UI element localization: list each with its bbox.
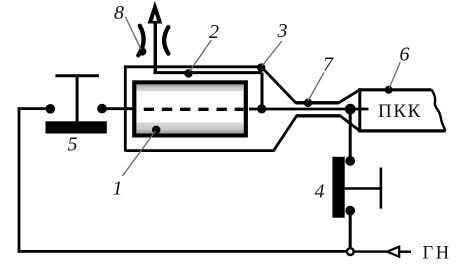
node: dot at valve (label 8 target) [138,48,146,56]
GN arrowhead (open triangle pointing left) [387,247,399,257]
component 4: thick bar [332,157,344,218]
leader line for label 3 [262,41,282,66]
channel 7: top wall reinforcement [296,101,339,104]
leader line for label 7 [308,73,324,102]
valve 8: left arc [138,26,143,56]
channel 7: bottom wall reinforcement [297,114,341,117]
node: big junction dot at funnel tip [345,104,356,115]
component 4: T electrode vertical bar [380,168,383,209]
leader line for label 8 [125,17,141,50]
component 5: left terminal dot [46,104,56,114]
node: dot on box 6 top edge (label 6 target) [385,86,393,94]
wire 2: horizontal inside envelope [154,71,262,74]
svg-text:6: 6 [400,44,410,66]
component 5: top T horizontal [55,74,99,77]
svg-text:1: 1 [113,178,123,200]
leader line for label 6 [389,62,400,89]
wire: axis through channel to PKK [262,108,369,111]
box 6 (PKK): bottom edge [358,129,446,132]
component 4: top terminal dot [345,156,355,166]
svg-text:7: 7 [323,54,334,76]
leader line for label 2 [190,40,212,72]
gas outlet arrow 8: white notch inside head [153,14,158,21]
svg-text:ПКК: ПКК [378,101,422,122]
tube 1: upper gray strip [137,85,244,91]
component 5: right terminal dot [97,104,107,114]
svg-text:ГН: ГН [423,244,452,264]
svg-text:5: 5 [68,134,78,156]
valve 8: right arc [164,27,168,53]
wire 2: vertical down to junction [261,73,264,109]
wire: from big dot down to component 4 [349,109,352,158]
wire: bus from circle to GN arrow [354,250,388,252]
node: dot on wire 2 [184,69,192,77]
wire: stub right of GN arrowhead [399,250,411,252]
wire: bottom bus [18,250,347,253]
wire: comp5 right dot to tube [102,107,135,110]
node: dot inside tube (label 1 target) [152,126,160,134]
node: junction dot at tube right axis [257,104,266,113]
component 5: wire from rail to left dot [18,107,50,110]
tube 1: dashed axis line [144,108,244,111]
component 5: bottom thick bar [46,121,107,133]
svg-text:8: 8 [114,2,124,24]
gas outlet arrow 8: arrowhead (solid with small notch) [149,4,162,23]
node: dot on channel top wall (label 7 target) [304,99,312,107]
component 4: T electrode horizontal [345,187,381,190]
component 4: bottom terminal dot [345,206,355,216]
wire: comp4 bottom dot to bus circle [349,211,352,248]
component 5: vertical stem [76,76,79,122]
wire: left rail vertical [18,107,21,253]
node: open circle junction on bus [347,248,354,255]
tube 1: lower gray strip [137,123,244,134]
box 6 (PKK): torn right edge [431,90,445,131]
svg-text:4: 4 [315,181,325,203]
envelope 3: bottom outline with taper and channel bottom wall [125,116,359,151]
box 6 (PKK): left edge [358,88,361,132]
tube 1: body rectangle [134,82,246,135]
svg-text:2: 2 [209,21,219,43]
svg-text:3: 3 [277,20,288,42]
leader line for label 1 [123,131,156,176]
envelope 3: top outline with taper and channel top wall [125,67,359,152]
wire: axis from tube to junction [249,108,262,111]
gas outlet arrow 8: shaft [154,11,157,74]
box 6 (PKK): top edge [358,88,431,91]
node: dot at envelope top-right corner (label 3 target) [257,63,265,71]
